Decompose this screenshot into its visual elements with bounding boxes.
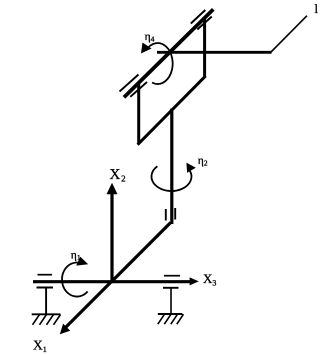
plate right edge bbox=[203, 17, 206, 77]
right bearing stem bbox=[170, 288, 172, 314]
joint tick left of bend bbox=[165, 209, 167, 221]
vertical link from plate down bbox=[170, 109, 173, 225]
arrowhead X1 bbox=[60, 324, 70, 335]
left bearing stem bbox=[45, 288, 47, 315]
bearing hatch lower end, slash above bbox=[120, 75, 139, 92]
rotation arc eta4 about diagonal axis bbox=[146, 43, 172, 84]
svg-text:l: l bbox=[315, 2, 319, 16]
arrowhead eta1 bbox=[76, 257, 88, 266]
left ground line bbox=[32, 313, 61, 315]
bearing hatch upper end, slash below bbox=[197, 17, 212, 30]
plate left edge bbox=[137, 83, 140, 144]
right ground hatch strokes bbox=[158, 314, 184, 324]
left bearing bottom line bbox=[37, 287, 54, 289]
right ground line bbox=[158, 313, 183, 315]
horizontal link to end effector bbox=[157, 51, 272, 54]
leader line to label l bbox=[271, 16, 307, 52]
joint tick right of bend bbox=[174, 208, 176, 220]
arrowhead eta2 bbox=[186, 163, 195, 173]
joint axis A3 (thick diagonal shaft, top) bbox=[124, 9, 213, 97]
rotation arc eta1 about X3 axis bbox=[62, 263, 88, 297]
arrowhead X3 bbox=[190, 277, 199, 285]
plate bottom edge bbox=[138, 76, 206, 145]
axis X1 diagonal bbox=[65, 281, 113, 329]
right bearing top line bbox=[164, 275, 180, 277]
left ground hatch strokes bbox=[33, 315, 61, 325]
arrowhead eta4 bbox=[141, 43, 152, 54]
rotation arc eta2 about vertical link bbox=[151, 166, 191, 191]
bearing hatch lower end, slash below bbox=[130, 82, 147, 97]
axis X2 vertical bbox=[110, 193, 113, 282]
link from bend down to origin (collinear with X1) bbox=[111, 223, 171, 283]
bearing hatch upper end, slash above bbox=[191, 10, 206, 24]
axis X3 horizontal bbox=[33, 280, 191, 283]
right bearing bottom line bbox=[163, 287, 179, 289]
left bearing top line bbox=[38, 274, 53, 276]
arrowhead X2 bbox=[107, 183, 118, 195]
